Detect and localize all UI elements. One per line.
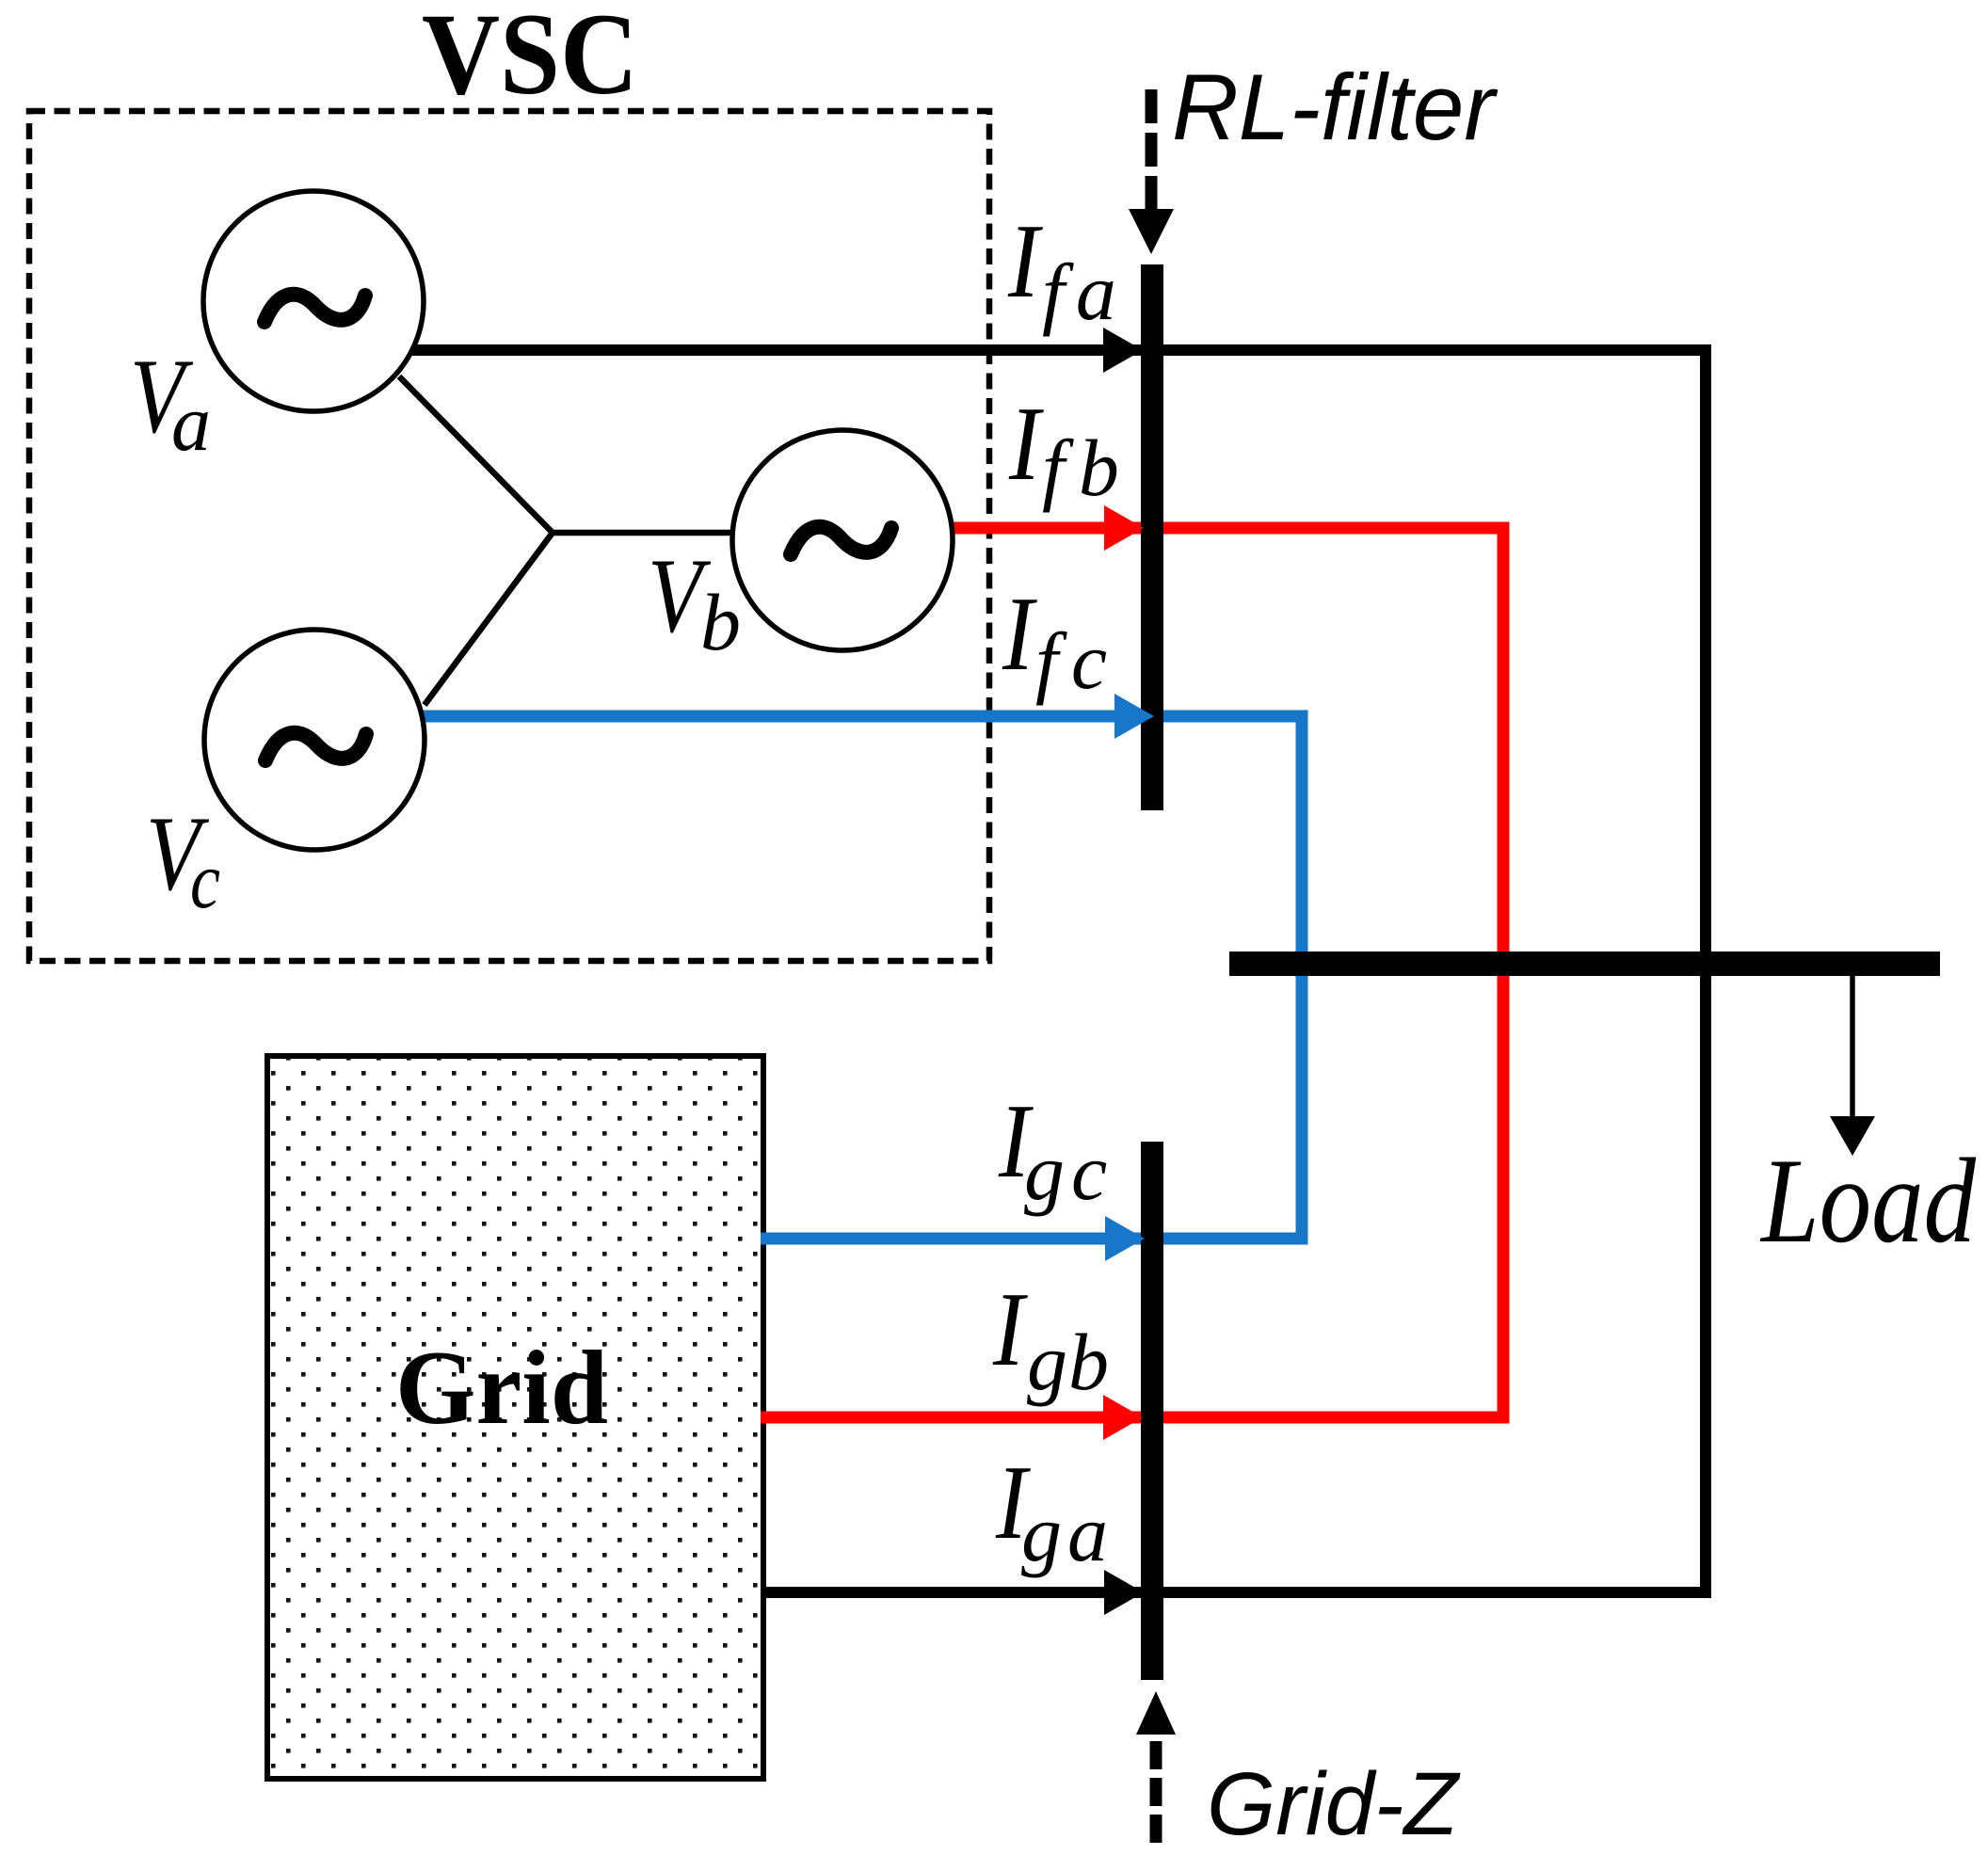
wire Ifc/Igc phase c (blue): [418, 716, 1302, 1239]
arrowhead Ifa: [1103, 328, 1143, 373]
RL-filter bus bar: [1141, 264, 1163, 810]
svg-text:a: a: [171, 377, 211, 468]
arrowhead Iga: [1104, 1570, 1144, 1615]
svg-text:fc: fc: [1035, 616, 1120, 706]
svg-text:fb: fb: [1042, 423, 1133, 513]
svg-text:Grid-Z: Grid-Z: [1207, 1754, 1461, 1854]
load arrow line: [1850, 969, 1855, 1120]
svg-text:ga: ga: [1021, 1488, 1114, 1578]
arrowhead Ifb: [1104, 505, 1144, 551]
svg-text:I: I: [1007, 203, 1043, 320]
source Va sine symbol: [265, 295, 365, 322]
svg-text:RL-filter: RL-filter: [1172, 55, 1499, 159]
svg-text:c: c: [190, 835, 220, 925]
PCC load bus bar: [1229, 951, 1940, 976]
source Va circle: [203, 191, 424, 411]
RL-filter dashed arrow: [1146, 89, 1158, 209]
wire: Y junction arm to Va: [399, 376, 553, 533]
Grid-Z dashed arrow: [1136, 1691, 1176, 1735]
arrowhead Ifc: [1114, 694, 1154, 739]
svg-text:b: b: [700, 577, 741, 667]
source Vc sine symbol: [265, 733, 366, 760]
svg-text:gb: gb: [1027, 1317, 1110, 1407]
wire Ifa/Iga phase a: VSC to bus to load bus loop (black): [411, 350, 1706, 1592]
VSC converter dashed box: [29, 111, 989, 961]
wire: Y junction arm to Vc: [425, 533, 553, 705]
svg-text:fa: fa: [1042, 247, 1128, 337]
Grid box: [267, 1056, 763, 1779]
svg-text:Grid: Grid: [395, 1330, 608, 1447]
arrowhead Igb: [1103, 1395, 1143, 1440]
svg-text:I: I: [1002, 576, 1037, 693]
source Vb circle: [732, 430, 953, 650]
source Vc circle: [204, 630, 425, 850]
svg-text:gc: gc: [1024, 1127, 1114, 1217]
arrowhead Igc: [1105, 1216, 1145, 1261]
svg-text:I: I: [1008, 386, 1044, 503]
svg-text:Load: Load: [1759, 1133, 1976, 1268]
grid-Z bus bar: [1141, 1142, 1163, 1680]
svg-text:VSC: VSC: [422, 0, 638, 119]
wire: Y junction arm to Vb: [553, 530, 736, 536]
svg-text:I: I: [992, 1271, 1028, 1388]
load arrowhead: [1830, 1116, 1875, 1156]
wire Ifb/Igb phase b (red): [761, 528, 1503, 1417]
source Vb sine symbol: [791, 527, 891, 554]
